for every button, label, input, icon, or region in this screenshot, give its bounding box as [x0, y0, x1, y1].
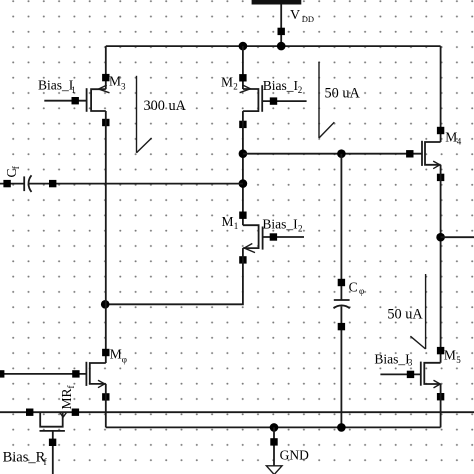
pin square M3 drain — [102, 74, 109, 81]
pin square VDD — [278, 28, 285, 35]
wire VDD stem — [280, 5, 282, 47]
svg-text:2: 2 — [233, 82, 238, 92]
wire right column middle — [440, 165, 442, 363]
svg-text:V: V — [290, 8, 300, 23]
label M2 — [221, 75, 238, 92]
pin square M2 drain — [239, 121, 246, 128]
svg-text:φ: φ — [122, 355, 127, 365]
node junction Cphi bottom — [337, 423, 346, 432]
wire mid column M2 to M1 — [242, 111, 244, 225]
wire M5 gate lead — [380, 373, 420, 375]
pin square M3 source — [102, 119, 109, 126]
pin square M1 source — [239, 256, 246, 263]
svg-text:1: 1 — [71, 85, 76, 95]
pin square M4 drain — [437, 127, 444, 134]
svg-text:GND: GND — [280, 448, 309, 463]
node junction row183 — [239, 179, 248, 188]
label Cf rotated — [4, 166, 21, 177]
wire bottom rail 412 — [0, 411, 474, 413]
current arrow 50uA top — [319, 62, 334, 138]
pin square M5 drain — [437, 347, 444, 354]
svg-text:M: M — [109, 74, 121, 89]
wire bottom line 427 — [106, 426, 441, 428]
svg-text:MR: MR — [59, 388, 74, 409]
svg-text:Bias_I: Bias_I — [263, 78, 299, 93]
wire M2 gate lead — [262, 100, 306, 102]
wire output stub — [441, 236, 474, 238]
pin square M1 gate — [270, 233, 277, 240]
node junction top rail VDD — [277, 42, 286, 51]
wire left column middle — [105, 111, 107, 363]
pin square left edge stub — [0, 370, 4, 377]
svg-text:Bias_R: Bias_R — [3, 449, 46, 465]
capacitor Cf — [0, 175, 243, 192]
node junction M1 source to left column — [101, 300, 110, 309]
wire top rail — [106, 45, 441, 47]
wire GND stem — [273, 427, 275, 465]
pin square rail right of MRf — [72, 409, 79, 416]
svg-text:M: M — [222, 214, 234, 229]
transistor M2 — [240, 85, 263, 112]
node junction top rail M2 — [239, 42, 248, 51]
node junction row153 — [239, 149, 248, 158]
transistor M4 — [422, 141, 441, 169]
ground symbol — [266, 466, 282, 474]
wire MRf gate lead — [52, 431, 54, 474]
svg-text:f: f — [66, 386, 76, 389]
label Cphi — [349, 280, 365, 296]
wire M1 source down and left — [105, 248, 243, 304]
svg-text:50 uA: 50 uA — [325, 85, 361, 101]
transistor M1 — [243, 225, 263, 252]
pin square M5 source — [437, 393, 444, 400]
transistor MRf — [40, 412, 67, 431]
svg-text:3: 3 — [408, 358, 413, 368]
pin square M4 gate — [406, 150, 413, 157]
wire Mphi gate lead — [0, 373, 86, 375]
wire M5 source down — [440, 384, 442, 427]
svg-text:50 uA: 50 uA — [387, 307, 423, 323]
svg-text:C: C — [349, 280, 358, 295]
svg-text:Bias_I: Bias_I — [262, 216, 298, 231]
node junction output — [436, 233, 445, 242]
wire row 153 to M4 gate — [243, 153, 422, 155]
svg-text:f: f — [11, 166, 21, 169]
label M1 — [222, 214, 239, 231]
label M4 — [445, 130, 462, 147]
pin square M4 source — [437, 174, 444, 181]
label Bias_I2 of M2 — [263, 78, 303, 95]
svg-text:M: M — [110, 347, 122, 362]
label Bias_I2 of M1 — [262, 216, 302, 233]
node junction GND — [270, 423, 279, 432]
wire M1 gate lead — [263, 236, 304, 238]
wire Mphi source down — [105, 384, 107, 428]
label Bias_I3 — [374, 352, 413, 368]
svg-text:Bias_I: Bias_I — [38, 78, 74, 93]
label Bias_Rf — [3, 449, 48, 468]
pin square GND — [270, 438, 277, 445]
pin square M2 gate — [270, 97, 277, 104]
current arrow 300uA — [137, 76, 152, 153]
pin square Cf right — [49, 180, 56, 187]
label M3 — [109, 74, 126, 92]
svg-text:3: 3 — [121, 82, 126, 92]
pin square Cphi top — [338, 279, 345, 286]
power VDD bar — [252, 0, 302, 5]
pin square M5 gate — [407, 371, 414, 378]
svg-text:2: 2 — [298, 224, 303, 234]
transistor M3 — [87, 85, 110, 112]
svg-text:300 uA: 300 uA — [144, 98, 187, 114]
wire left column upper — [105, 46, 107, 89]
svg-text:φ: φ — [359, 286, 364, 296]
svg-text:Bias_I: Bias_I — [374, 352, 410, 367]
pin square M2 source — [239, 74, 246, 81]
pin square Cf left — [3, 180, 10, 187]
wire mid column upper — [242, 46, 244, 89]
node junction row153 Cphi — [337, 149, 346, 158]
label Mphi — [110, 347, 127, 365]
svg-text:DD: DD — [302, 14, 314, 24]
pin square M1 drain — [239, 212, 246, 219]
svg-text:4: 4 — [457, 137, 462, 147]
current arrow 50uA right — [410, 274, 425, 349]
pin square Cphi bottom — [338, 323, 345, 330]
pin square Mphi drain — [102, 349, 109, 356]
transistor Mphi — [86, 362, 105, 388]
transistor M5 — [421, 362, 441, 388]
pin square Mphi source — [102, 393, 109, 400]
svg-text:5: 5 — [456, 355, 461, 365]
svg-text:M: M — [445, 130, 457, 145]
pin square Mphi gate — [72, 370, 79, 377]
label VDD — [290, 8, 314, 24]
label Bias_I1 — [38, 78, 76, 95]
svg-text:M: M — [221, 75, 233, 90]
pin square M3 gate — [72, 97, 79, 104]
wire right column upper — [440, 46, 442, 142]
pin square MRf gate — [49, 439, 56, 446]
pin square rail left — [26, 409, 33, 416]
capacitor Cphi — [334, 154, 350, 428]
label MRf rotated — [59, 386, 76, 410]
svg-text:M: M — [444, 348, 456, 363]
label M5 — [444, 348, 461, 366]
svg-text:2: 2 — [298, 85, 303, 95]
wire M3 gate lead — [44, 100, 86, 102]
svg-text:1: 1 — [234, 221, 239, 231]
